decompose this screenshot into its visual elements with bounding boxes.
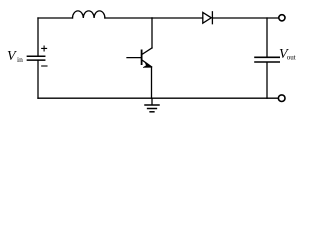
inductor L1 [73,11,105,18]
wire top rail left segment [38,17,73,19]
wire top rail right segment [212,17,278,19]
transistor Q1 [142,48,152,98]
plus sign [42,46,47,51]
wire top-left vertical [37,18,39,56]
svg-text:out: out [287,54,296,62]
wire bottom rail [38,97,278,99]
svg-text:in: in [17,55,23,64]
capacitor C1 [255,57,279,62]
battery V_in [27,56,44,60]
wire top rail middle segment [105,17,203,19]
svg-text:V: V [7,49,17,64]
capacitor C1 bottom wire [266,63,268,98]
transistor Q1 collector wire [151,18,153,48]
terminal bottom-right [278,95,285,102]
ground [145,98,159,112]
capacitor C1 top wire [266,18,268,56]
transistor Q1 emitter arrow [143,62,152,68]
minus sign [42,65,47,67]
terminal top-right [279,15,285,21]
node collector junction [151,17,153,19]
diode D1 [203,12,213,24]
wire bottom-left vertical [37,60,39,98]
transistor Q1 base wire [127,57,142,59]
